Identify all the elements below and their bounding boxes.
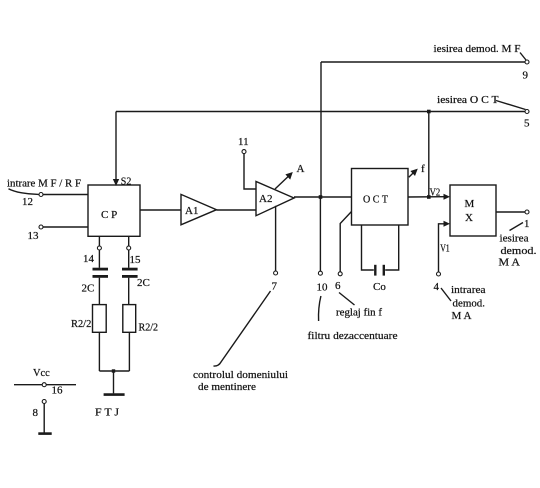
svg-text:intrarea: intrarea (451, 284, 486, 296)
svg-text:12: 12 (22, 196, 33, 208)
svg-text:M A: M A (499, 257, 521, 269)
svg-text:13: 13 (28, 230, 40, 242)
svg-text:7: 7 (272, 281, 278, 293)
svg-text:reglaj fin f: reglaj fin f (336, 307, 382, 319)
svg-text:Co: Co (373, 281, 386, 293)
svg-text:S2: S2 (121, 176, 132, 188)
svg-text:10: 10 (317, 282, 329, 294)
svg-text:demod.: demod. (453, 298, 486, 310)
svg-text:M A: M A (452, 310, 472, 322)
svg-text:C P: C P (101, 209, 117, 221)
svg-text:X: X (465, 212, 473, 224)
svg-text:1: 1 (524, 218, 530, 230)
svg-text:4: 4 (434, 281, 440, 293)
svg-text:11: 11 (238, 136, 249, 148)
svg-text:F T J: F T J (95, 407, 120, 419)
svg-text:16: 16 (52, 385, 64, 397)
svg-text:2C: 2C (137, 277, 150, 289)
svg-text:A: A (297, 163, 305, 175)
svg-text:V2: V2 (430, 187, 441, 199)
svg-text:15: 15 (130, 254, 142, 266)
svg-text:8: 8 (33, 407, 39, 419)
svg-text:9: 9 (523, 70, 529, 82)
svg-text:O C T: O C T (363, 194, 388, 206)
svg-text:R2/2: R2/2 (139, 322, 159, 334)
svg-text:2C: 2C (82, 283, 95, 295)
svg-text:14: 14 (83, 253, 95, 265)
svg-text:M: M (465, 198, 475, 210)
svg-text:filtru dezaccentuare: filtru dezaccentuare (308, 330, 398, 342)
svg-text:intrare M F / R F: intrare M F / R F (7, 178, 81, 190)
svg-text:iesirea O C T: iesirea O C T (437, 94, 499, 106)
svg-text:A2: A2 (259, 193, 272, 205)
svg-text:Vcc: Vcc (33, 367, 50, 379)
svg-text:controlul domeniului: controlul domeniului (193, 369, 288, 381)
svg-text:demod.: demod. (501, 245, 537, 257)
svg-text:6: 6 (335, 280, 341, 292)
svg-text:iesirea demod. M F: iesirea demod. M F (434, 43, 521, 55)
svg-text:A1: A1 (185, 205, 198, 217)
svg-text:iesirea: iesirea (500, 233, 529, 245)
svg-text:5: 5 (524, 118, 530, 130)
svg-text:de mentinere: de mentinere (198, 381, 256, 393)
svg-text:R2/2: R2/2 (71, 318, 91, 330)
svg-text:f: f (421, 163, 425, 175)
svg-text:V1: V1 (440, 243, 450, 255)
